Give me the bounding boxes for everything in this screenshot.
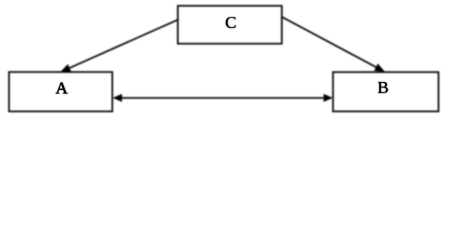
box A: [9, 72, 112, 111]
wire A to B: [122, 97, 324, 99]
box B: [333, 72, 439, 111]
wire C to B: [282, 17, 376, 67]
arrowhead at B left edge: [324, 94, 333, 102]
svg-text:C: C: [225, 13, 236, 32]
arrowhead at B top: [374, 63, 385, 71]
arrowhead at A right edge: [113, 94, 122, 102]
wire C to A: [70, 20, 178, 68]
svg-text:A: A: [56, 79, 69, 98]
svg-text:B: B: [377, 78, 388, 97]
arrowhead at A top: [60, 64, 71, 72]
box C: [178, 6, 282, 44]
